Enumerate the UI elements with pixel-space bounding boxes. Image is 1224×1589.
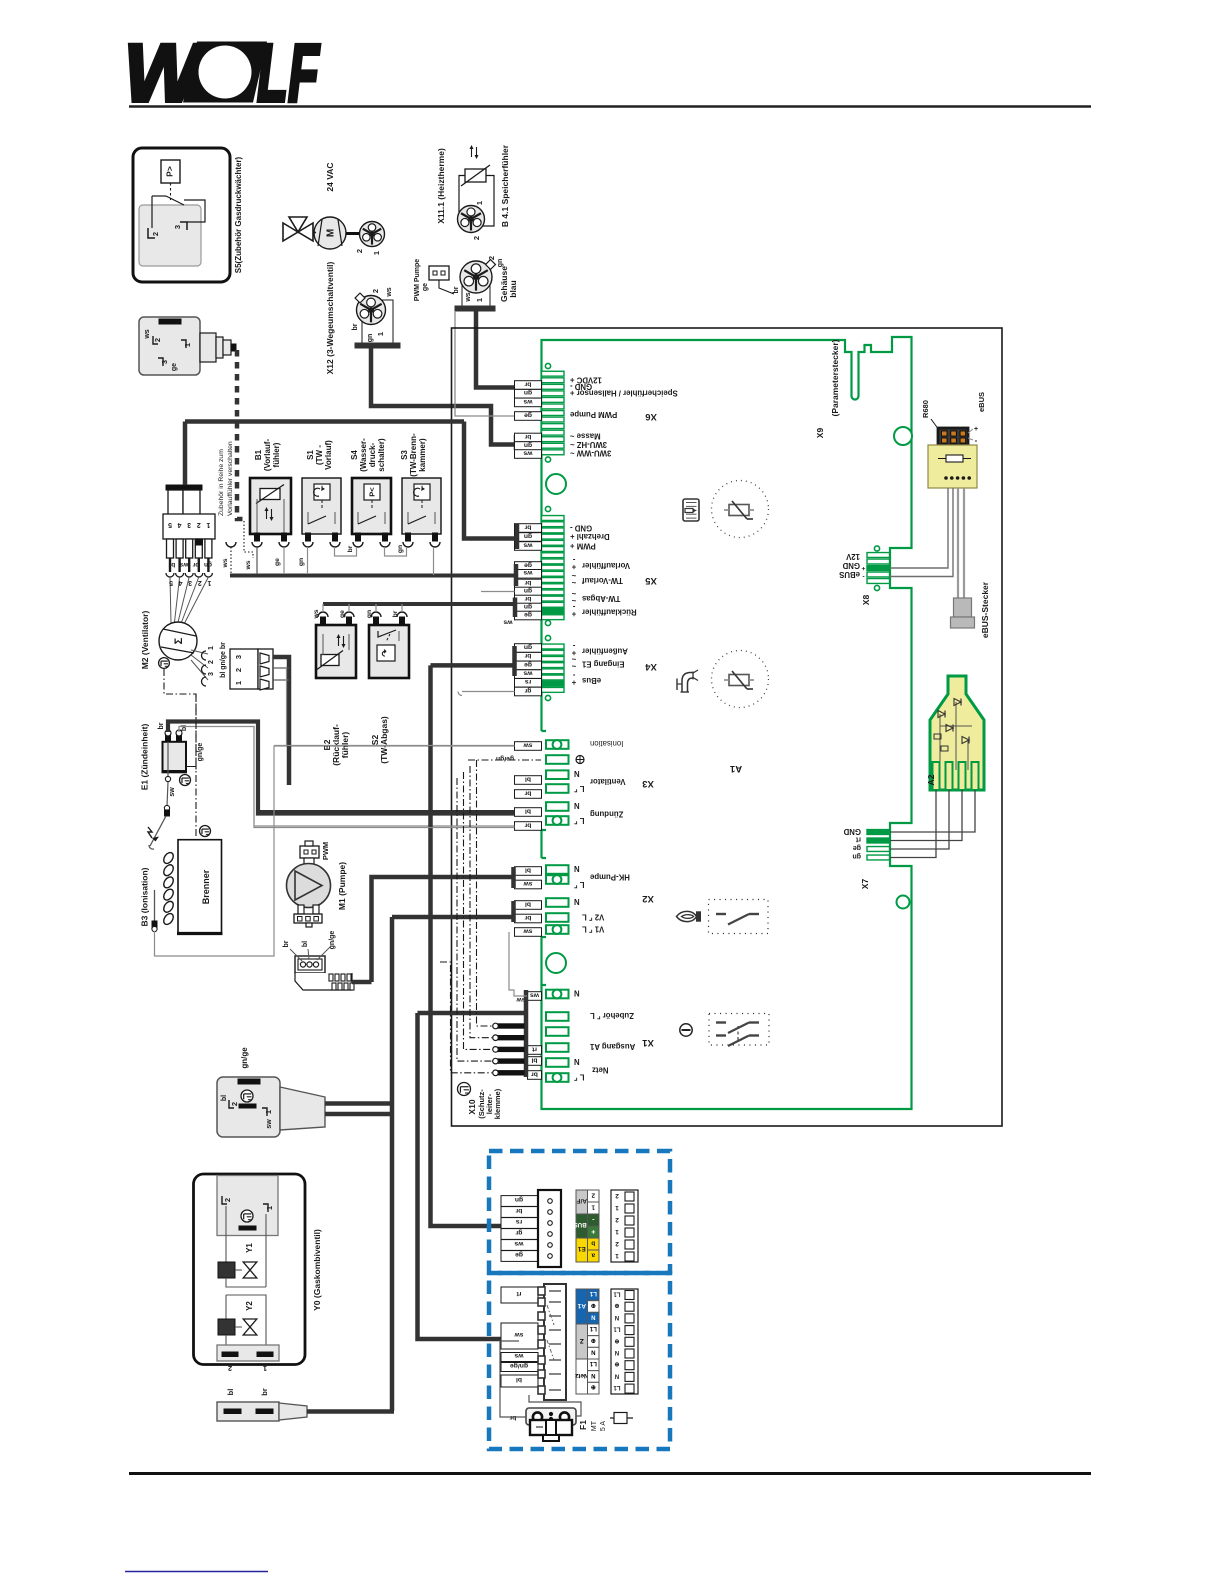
eBUS plug xyxy=(954,598,972,617)
terminal box bl xyxy=(515,867,542,876)
svg-text:N: N xyxy=(591,1349,595,1355)
wire sw (ionisation) xyxy=(274,745,515,747)
svg-text:2: 2 xyxy=(198,579,202,586)
wire mains plug L xyxy=(325,1101,393,1106)
connector X3 pin field xyxy=(546,740,569,825)
svg-text:gn: gn xyxy=(524,587,532,594)
svg-text:Außenfühler: Außenfühler xyxy=(582,647,628,656)
wires R680 to X8 xyxy=(890,488,948,568)
wire pump comb to X2 xyxy=(352,980,372,985)
ground symbol at burner xyxy=(200,826,211,837)
svg-text:gn/ge: gn/ge xyxy=(510,1362,528,1369)
svg-text:1: 1 xyxy=(208,646,215,650)
svg-text:ws: ws xyxy=(523,670,533,677)
svg-text:+: + xyxy=(571,678,576,687)
svg-text:1: 1 xyxy=(591,1204,595,1211)
svg-text:ge: ge xyxy=(853,844,861,851)
svg-text:24 VAC: 24 VAC xyxy=(325,162,335,191)
footer link line xyxy=(125,1571,268,1573)
fuse symbol xyxy=(610,1417,633,1419)
svg-text:bl: bl xyxy=(525,866,531,873)
icon burner flame xyxy=(677,911,701,921)
svg-text:3: 3 xyxy=(234,655,243,659)
svg-text:M: M xyxy=(326,229,337,237)
svg-text:bl gn/ge br: bl gn/ge br xyxy=(220,642,227,678)
svg-text:+: + xyxy=(571,610,576,619)
svg-text:X5: X5 xyxy=(644,575,656,586)
svg-text:br: br xyxy=(260,1388,269,1396)
svg-text:br: br xyxy=(531,1070,538,1077)
svg-text:4: 4 xyxy=(178,521,182,528)
connector X8 pin field xyxy=(867,546,890,591)
fan M2 xyxy=(159,622,215,686)
connector X4 pin field xyxy=(542,635,565,700)
code strip A/F eBUS E1 xyxy=(574,1190,599,1262)
svg-text:GND: GND xyxy=(842,561,860,570)
svg-text:Zubehör ⌜ L: Zubehör ⌜ L xyxy=(590,1011,634,1020)
svg-text:Rücklauffühler: Rücklauffühler xyxy=(582,608,637,617)
svg-text:Netz: Netz xyxy=(574,1372,588,1379)
svg-text:(TW -: (TW - xyxy=(315,445,324,465)
svg-text:2: 2 xyxy=(487,256,496,260)
svg-text:L ⌜: L ⌜ xyxy=(574,816,585,825)
svg-text:(TW-Brenn-: (TW-Brenn- xyxy=(409,433,418,477)
svg-text:N: N xyxy=(615,1372,619,1378)
wire E1 sw electrode xyxy=(167,742,169,777)
svg-text:ge: ge xyxy=(524,411,532,418)
svg-text:TW-Abgas: TW-Abgas xyxy=(581,594,620,603)
connector X5 pin field xyxy=(542,506,565,625)
wire X12 to X6 xyxy=(371,348,514,445)
svg-text:gn: gn xyxy=(497,259,504,268)
terminal box br xyxy=(515,652,542,661)
connector X2 pin field xyxy=(546,865,569,934)
black bus bar at X1 xyxy=(524,990,529,1077)
wire B2 ws xyxy=(322,604,324,612)
wire B1-ws down xyxy=(256,547,258,574)
svg-text:ws: ws xyxy=(523,541,533,548)
terminal box ge xyxy=(515,611,542,620)
svg-text:3: 3 xyxy=(208,672,215,676)
junction bracket X4 xyxy=(512,646,517,676)
connector X6 pin field xyxy=(542,363,565,462)
svg-text:↷: ↷ xyxy=(380,649,390,657)
wire ionisation to X3 xyxy=(155,746,275,957)
svg-text:N: N xyxy=(574,769,580,778)
svg-text:Vorlauf): Vorlauf) xyxy=(324,440,333,470)
svg-text:2: 2 xyxy=(615,1192,619,1199)
svg-text:bl: bl xyxy=(516,1376,522,1383)
svg-text:L1: L1 xyxy=(613,1291,621,1297)
wire motor to connector xyxy=(346,232,360,235)
svg-text:2: 2 xyxy=(197,521,201,528)
svg-text:druck-: druck- xyxy=(368,442,377,467)
terminal box br xyxy=(528,1071,542,1080)
svg-text:1: 1 xyxy=(475,201,484,205)
svg-text:rt: rt xyxy=(516,1290,522,1297)
svg-text:P<: P< xyxy=(368,487,377,497)
junction bracket X2 V xyxy=(511,901,516,922)
svg-text:Σ: Σ xyxy=(173,637,185,644)
svg-text:br: br xyxy=(524,821,531,828)
connector strip box1 xyxy=(538,1190,561,1267)
vertical wire to Netz section xyxy=(418,1013,502,1339)
svg-text:X7: X7 xyxy=(860,879,870,890)
terminal box rs xyxy=(515,679,542,688)
svg-text:N: N xyxy=(591,1372,595,1378)
svg-text:X10: X10 xyxy=(467,1099,477,1114)
svg-text:Masse ~: Masse ~ xyxy=(570,432,601,441)
svg-text:X9: X9 xyxy=(815,428,825,439)
junction bracket X5 low xyxy=(513,598,518,618)
svg-text:bl: bl xyxy=(302,941,309,947)
terminal box br xyxy=(515,790,542,799)
svg-text:Ausgang A1: Ausgang A1 xyxy=(589,1042,635,1051)
svg-text:E1: E1 xyxy=(577,1245,585,1252)
svg-text:ws: ws xyxy=(222,558,229,568)
svg-text:1: 1 xyxy=(183,343,192,347)
svg-text:L ⌜: L ⌜ xyxy=(574,880,585,889)
3-way valve symbol xyxy=(283,217,313,241)
svg-text:gr: gr xyxy=(524,687,531,694)
svg-text:R680: R680 xyxy=(921,400,930,418)
svg-text:gn: gn xyxy=(524,603,532,610)
svg-text:gn: gn xyxy=(298,558,305,566)
dotted ws wire xyxy=(244,521,253,558)
svg-text:2: 2 xyxy=(615,1216,619,1223)
svg-text:ge: ge xyxy=(422,283,429,291)
terminal box gn xyxy=(515,603,542,612)
wire E1 to X3 Zuendung br (thin) xyxy=(254,825,515,827)
wire fan bl xyxy=(286,668,288,746)
svg-text:X8: X8 xyxy=(861,595,871,606)
svg-text:2: 2 xyxy=(228,1364,232,1373)
wire ge to X6 PWM pin xyxy=(455,311,514,416)
svg-text:B3 (Ionisation): B3 (Ionisation) xyxy=(140,867,150,926)
rectifier module A2 xyxy=(930,676,984,790)
pump plug with strain relief xyxy=(295,956,354,990)
svg-text:ge: ge xyxy=(171,363,178,371)
flow switch S3 xyxy=(402,478,441,534)
wire eBus cable to X4 xyxy=(431,663,515,668)
svg-text:+: + xyxy=(571,563,576,572)
svg-text:A1: A1 xyxy=(577,1302,586,1309)
wire Gehaeuse to X6 xyxy=(476,311,514,388)
wire bus to fan block xyxy=(183,422,188,486)
svg-text:gn: gn xyxy=(367,334,374,343)
mounting hole xyxy=(546,953,566,973)
wire S4-S3 link gn xyxy=(385,547,407,556)
svg-text:fühler): fühler) xyxy=(272,442,281,467)
svg-text:br: br xyxy=(524,789,531,796)
svg-text:eBus: eBus xyxy=(581,676,601,685)
wire E1 bl to X3 (thin) xyxy=(179,727,515,828)
svg-text:3WU-HZ ~: 3WU-HZ ~ xyxy=(570,440,607,449)
svg-text:(Vorlauf-: (Vorlauf- xyxy=(263,439,272,472)
svg-text:ws: ws xyxy=(514,1240,524,1247)
svg-text:-: - xyxy=(975,436,978,445)
svg-text:sw: sw xyxy=(523,927,533,934)
wire B2 ge xyxy=(348,604,350,612)
wire S1-S4 link br xyxy=(335,547,357,556)
svg-text:Ventilator: Ventilator xyxy=(590,777,626,786)
terminal box br xyxy=(515,595,542,604)
wire gn stub xyxy=(481,591,515,593)
svg-text:bl: bl xyxy=(531,1056,537,1063)
svg-text:ws: ws xyxy=(523,398,533,405)
junction bracket X2 HK xyxy=(511,867,516,888)
icon pipe elbow xyxy=(677,670,698,692)
svg-text:N: N xyxy=(574,801,580,810)
terminal box ws xyxy=(515,450,542,459)
svg-text:kammer): kammer) xyxy=(418,438,427,472)
terminal box ge xyxy=(515,661,542,670)
ignition unit E1 xyxy=(162,730,196,772)
wires X7 to A2 xyxy=(890,790,975,832)
svg-text:1: 1 xyxy=(376,332,385,336)
svg-text:1: 1 xyxy=(264,1110,273,1114)
fan connector block xyxy=(163,485,215,558)
sensor bus B2/S2 to X5 xyxy=(323,602,515,606)
fan 3-pin connector xyxy=(230,649,273,690)
svg-text:2: 2 xyxy=(355,249,364,253)
svg-text:br: br xyxy=(524,579,531,586)
terminal box gn xyxy=(515,587,542,596)
svg-text:L1: L1 xyxy=(589,1360,597,1366)
svg-text:ge: ge xyxy=(524,561,532,568)
terminal box gn xyxy=(515,442,542,451)
svg-text:X4: X4 xyxy=(644,661,656,672)
svg-text:M1 (Pumpe): M1 (Pumpe) xyxy=(337,862,347,910)
svg-text:br: br xyxy=(347,545,354,552)
svg-text:N: N xyxy=(574,864,580,873)
terminal box bl xyxy=(515,901,542,910)
accessory box frame (blue dashed) xyxy=(489,1151,670,1273)
svg-text:Vorlauffühler verschalten: Vorlauffühler verschalten xyxy=(227,441,234,516)
relay contacts (output A1) xyxy=(709,1014,769,1047)
top bus wire (B1 group) xyxy=(185,419,464,424)
svg-text:X11.1 (Heiztherme): X11.1 (Heiztherme) xyxy=(436,148,446,224)
svg-text:B 4.1 Speicherfühler: B 4.1 Speicherfühler xyxy=(500,144,510,227)
svg-text:ws: ws xyxy=(530,991,540,998)
svg-text:bl: bl xyxy=(221,1095,228,1101)
svg-text:1: 1 xyxy=(206,521,210,528)
mounting hole at X9 xyxy=(894,427,912,445)
terminal box rt xyxy=(528,1046,542,1055)
svg-text:V1 ⌜ L: V1 ⌜ L xyxy=(582,925,605,934)
svg-text:+: + xyxy=(974,426,978,433)
svg-text:blau: blau xyxy=(508,280,518,297)
svg-text:N: N xyxy=(574,989,580,998)
svg-text:br: br xyxy=(524,914,531,921)
svg-text:L ⌜: L ⌜ xyxy=(574,1073,585,1082)
connector X12 (plug) xyxy=(355,293,400,348)
svg-text:sw: sw xyxy=(523,741,533,748)
svg-text:ws: ws xyxy=(144,329,151,339)
mains box frame (blue dashed) xyxy=(489,1273,670,1449)
plug of S5 cable xyxy=(139,317,236,375)
svg-text:ge: ge xyxy=(274,558,281,566)
svg-text:eBUS: eBUS xyxy=(839,570,860,579)
svg-text:5: 5 xyxy=(168,521,172,528)
connector X7 pin field xyxy=(867,830,890,860)
svg-text:S5(Zubehör Gasdruckwächter): S5(Zubehör Gasdruckwächter) xyxy=(234,156,243,273)
wires R680 to eBUS plug xyxy=(957,488,959,598)
svg-text:ge: ge xyxy=(524,611,532,618)
svg-text:1: 1 xyxy=(263,1364,267,1373)
svg-text:br: br xyxy=(392,610,399,617)
svg-text:S4: S4 xyxy=(350,450,359,460)
svg-text:~: ~ xyxy=(571,662,576,671)
svg-text:br: br xyxy=(352,323,359,330)
wires fan connector to bus xyxy=(273,657,289,785)
svg-text:Y2: Y2 xyxy=(245,1301,254,1311)
svg-text:2: 2 xyxy=(591,1192,595,1199)
svg-text:gn: gn xyxy=(524,532,532,539)
svg-text:gn: gn xyxy=(524,643,532,650)
flow sensor B1 xyxy=(250,478,291,547)
svg-text:L ⌜: L ⌜ xyxy=(574,784,585,793)
svg-text:br: br xyxy=(524,380,531,387)
svg-text:bl: bl xyxy=(525,900,531,907)
gas pressure switch S5 xyxy=(133,148,230,282)
svg-text:N: N xyxy=(574,1057,580,1066)
mains plug (heater) xyxy=(217,1077,325,1137)
svg-text:sw: sw xyxy=(266,1119,273,1129)
svg-text:br: br xyxy=(524,433,531,440)
svg-text:bl: bl xyxy=(181,725,188,731)
wires to fuse xyxy=(500,1341,526,1417)
WOLF logo xyxy=(124,28,320,119)
terminal box bl xyxy=(528,1057,542,1066)
svg-text:3: 3 xyxy=(188,579,192,586)
svg-text:F1: F1 xyxy=(578,1420,588,1430)
fan wires xyxy=(166,558,212,623)
svg-text:br: br xyxy=(283,940,290,947)
earth terminal X10 xyxy=(493,1023,524,1075)
svg-text:2: 2 xyxy=(472,236,481,240)
terminal box bl xyxy=(515,776,542,785)
wire sw V1 to X1 xyxy=(509,932,527,996)
wire E1 to X3 Zuendung bl xyxy=(258,810,515,814)
terminal box bl xyxy=(515,808,542,817)
svg-text:2: 2 xyxy=(615,1240,619,1247)
return sensor B2 xyxy=(316,612,356,678)
svg-text:X3: X3 xyxy=(642,778,654,789)
svg-text:2: 2 xyxy=(230,1102,239,1106)
svg-text:gn: gn xyxy=(524,389,532,396)
terminal box gn xyxy=(515,644,542,653)
svg-text:ws: ws xyxy=(503,619,513,626)
svg-text:gr: gr xyxy=(515,1229,522,1236)
svg-text:gn/ge: gn/ge xyxy=(240,1047,249,1069)
svg-text:+: + xyxy=(861,565,865,572)
svg-text:3WU-WW ~: 3WU-WW ~ xyxy=(570,449,612,458)
fuse holder F1 xyxy=(526,1408,576,1441)
svg-text:A2: A2 xyxy=(926,774,936,785)
svg-text:GND -: GND - xyxy=(570,524,592,533)
mounting hole at X7 xyxy=(897,896,910,909)
terminal box sw xyxy=(515,928,542,937)
svg-text:br: br xyxy=(515,1207,522,1214)
sensor bus B1 to X5 xyxy=(230,574,516,578)
svg-text:A1: A1 xyxy=(729,763,742,774)
terminal box ws xyxy=(528,992,542,1001)
wire S2 gn xyxy=(375,604,377,612)
svg-text:P>: P> xyxy=(165,166,175,177)
svg-text:PWM +: PWM + xyxy=(570,542,596,551)
svg-text:1: 1 xyxy=(265,1206,274,1210)
connector X11.1 xyxy=(458,206,485,233)
svg-text:Z: Z xyxy=(580,1337,584,1344)
svg-text:⊕: ⊕ xyxy=(591,1384,596,1390)
svg-text:B1: B1 xyxy=(254,449,263,460)
svg-text:Brenner: Brenner xyxy=(201,869,211,904)
svg-text:(Parameterstecker): (Parameterstecker) xyxy=(830,339,840,416)
icon heating program xyxy=(683,499,699,521)
R680 parameter module xyxy=(928,428,977,488)
svg-text:br: br xyxy=(453,286,460,293)
svg-text:L1: L1 xyxy=(613,1384,621,1390)
svg-text:2: 2 xyxy=(208,660,215,664)
svg-text:L1: L1 xyxy=(589,1325,597,1331)
svg-text:gn: gn xyxy=(852,853,861,860)
svg-text:N: N xyxy=(615,1314,619,1320)
svg-text:Y0 (Gaskombiventil): Y0 (Gaskombiventil) xyxy=(312,1229,322,1311)
dashed wire from S5 plug xyxy=(237,350,247,519)
terminal box ge xyxy=(515,562,542,571)
gas combi valve Y0 xyxy=(194,1174,306,1365)
mains terminal comb xyxy=(538,1284,566,1400)
svg-text:L1: L1 xyxy=(613,1326,621,1332)
svg-text:a: a xyxy=(591,1252,595,1259)
vertical wire mains L xyxy=(390,917,395,1411)
svg-text:br: br xyxy=(524,595,531,602)
motor of 3-way valve xyxy=(313,217,346,249)
terminal box br xyxy=(515,381,542,390)
icon minus (accessory) xyxy=(680,1024,692,1036)
svg-text:N: N xyxy=(615,1349,619,1355)
dash-dot PE to X3 xyxy=(468,759,541,761)
svg-text:bl: bl xyxy=(525,775,531,782)
NTC symbol (flow sensor zone) xyxy=(712,481,769,538)
svg-text:M2 (Ventilator): M2 (Ventilator) xyxy=(140,611,150,670)
terminal box ws xyxy=(515,398,542,407)
svg-text:⊕: ⊕ xyxy=(614,1302,619,1308)
svg-text:sw: sw xyxy=(169,787,176,797)
svg-text:gn: gn xyxy=(366,610,373,618)
svg-text:5 A: 5 A xyxy=(600,1421,607,1431)
svg-text:3: 3 xyxy=(173,225,182,229)
svg-text:br: br xyxy=(524,523,531,530)
wire S3-br down xyxy=(433,547,435,575)
svg-text:1: 1 xyxy=(615,1252,619,1259)
terminal box ws xyxy=(515,670,542,679)
connector Gehaeuse blau xyxy=(455,260,495,311)
flue gas switch S2 xyxy=(369,612,409,678)
pump M1 xyxy=(287,841,331,927)
code strip A1 Z Netz xyxy=(574,1289,599,1394)
svg-text:3: 3 xyxy=(187,521,191,528)
svg-text:2: 2 xyxy=(151,232,160,236)
terminal box br xyxy=(515,822,542,831)
svg-text:12V: 12V xyxy=(845,552,860,561)
svg-text:eBUS-Stecker: eBUS-Stecker xyxy=(980,581,990,638)
junction bracket X6 lower xyxy=(514,435,519,450)
svg-text:ge: ge xyxy=(524,661,532,668)
svg-text:2: 2 xyxy=(234,668,243,672)
terminal box ws xyxy=(515,542,542,551)
